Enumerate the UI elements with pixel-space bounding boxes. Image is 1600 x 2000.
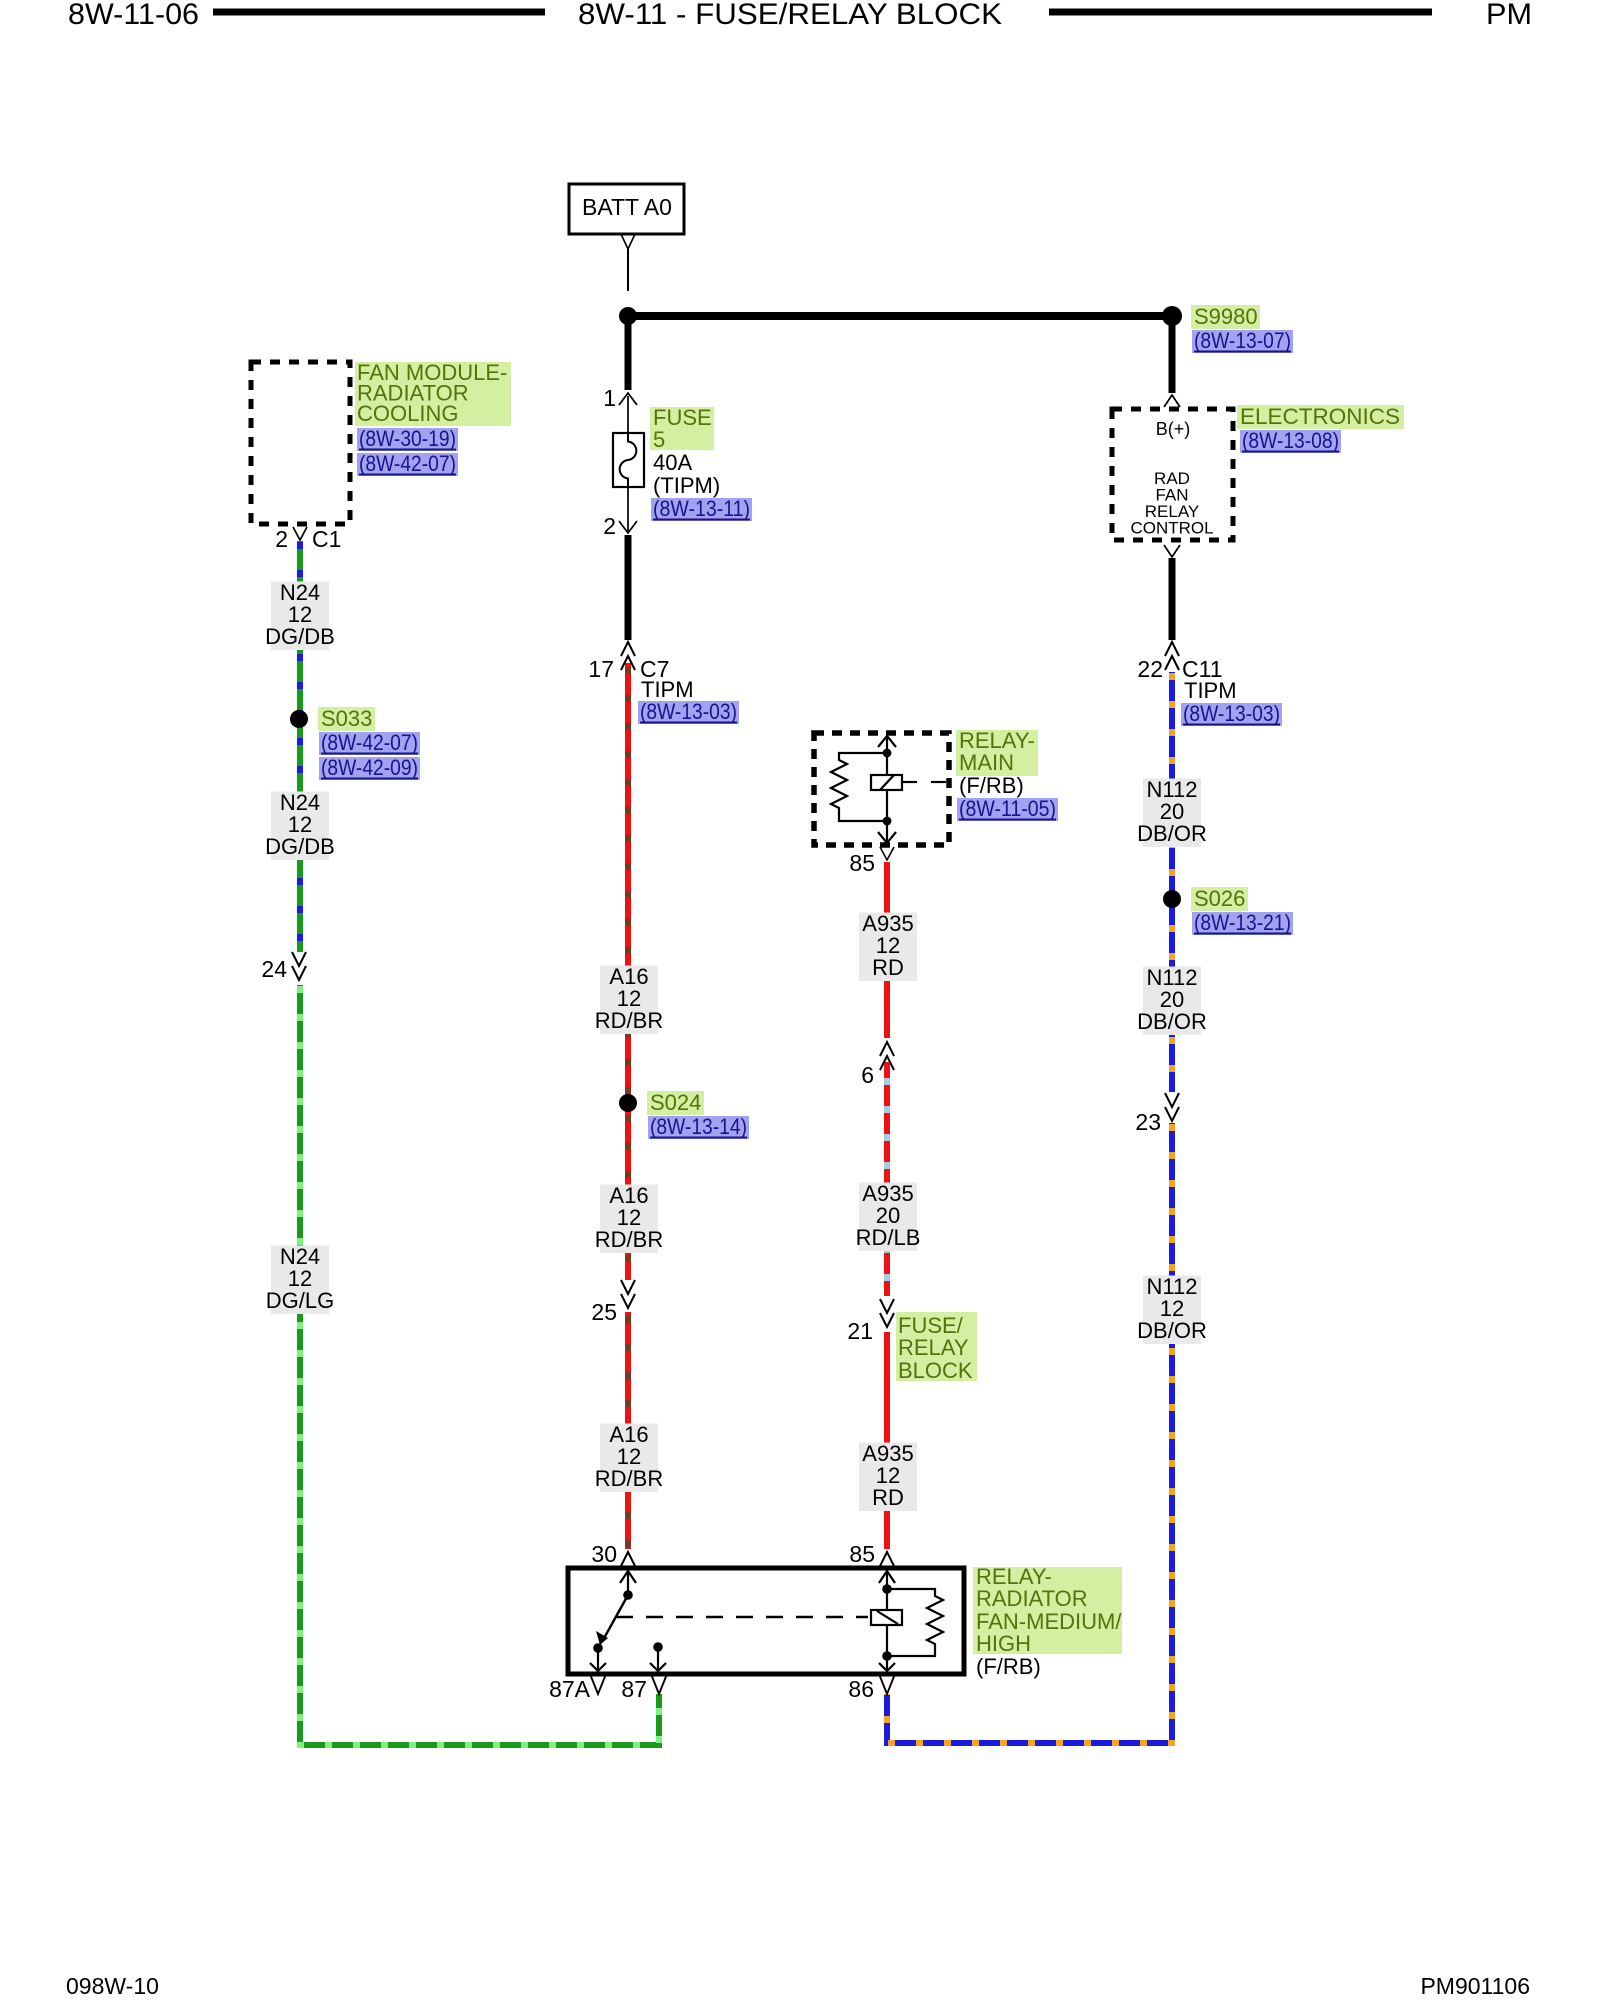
svg-text:RD/BR: RD/BR — [595, 1466, 663, 1491]
svg-text:DB/OR: DB/OR — [1137, 1009, 1207, 1034]
svg-text:S9980: S9980 — [1194, 304, 1258, 329]
svg-text:S024: S024 — [650, 1090, 701, 1115]
svg-text:(TIPM): (TIPM) — [653, 473, 720, 498]
svg-text:DG/DB: DG/DB — [265, 624, 335, 649]
svg-text:(8W-13-08): (8W-13-08) — [1242, 428, 1339, 453]
svg-text:22: 22 — [1137, 656, 1163, 682]
svg-text:CONTROL: CONTROL — [1130, 519, 1213, 538]
svg-text:(8W-13-21): (8W-13-21) — [1194, 910, 1291, 935]
svg-text:(F/RB): (F/RB) — [959, 773, 1024, 798]
svg-text:86: 86 — [848, 1676, 874, 1702]
svg-text:25: 25 — [591, 1299, 617, 1325]
svg-text:1: 1 — [603, 385, 616, 411]
svg-text:87: 87 — [621, 1676, 647, 1702]
svg-text:DG/DB: DG/DB — [265, 834, 335, 859]
svg-text:C1: C1 — [312, 526, 341, 552]
svg-text:(8W-13-07): (8W-13-07) — [1194, 328, 1291, 353]
svg-text:TIPM: TIPM — [1184, 678, 1237, 703]
svg-text:87A: 87A — [549, 1676, 591, 1702]
svg-text:(8W-13-14): (8W-13-14) — [650, 1114, 747, 1139]
svg-text:HIGH: HIGH — [976, 1631, 1031, 1656]
svg-text:DG/LG: DG/LG — [266, 1288, 334, 1313]
svg-text:(8W-11-05): (8W-11-05) — [959, 796, 1056, 821]
svg-text:30: 30 — [591, 1541, 617, 1567]
svg-text:2: 2 — [275, 526, 288, 552]
svg-text:5: 5 — [653, 427, 665, 452]
svg-text:(8W-42-07): (8W-42-07) — [359, 451, 456, 476]
svg-text:(8W-13-11): (8W-13-11) — [653, 496, 750, 521]
svg-text:DB/OR: DB/OR — [1137, 1318, 1207, 1343]
svg-text:8W-11-06: 8W-11-06 — [68, 0, 199, 31]
svg-text:PM901106: PM901106 — [1420, 1973, 1530, 1999]
svg-text:21: 21 — [847, 1318, 873, 1344]
svg-text:S033: S033 — [321, 706, 372, 731]
svg-text:85: 85 — [849, 1541, 875, 1567]
svg-text:RD: RD — [872, 955, 904, 980]
svg-text:RD/BR: RD/BR — [595, 1227, 663, 1252]
svg-text:MAIN: MAIN — [959, 750, 1014, 775]
svg-text:BATT A0: BATT A0 — [582, 194, 672, 220]
svg-text:RADIATOR: RADIATOR — [976, 1586, 1088, 1611]
svg-text:(8W-42-09): (8W-42-09) — [321, 755, 418, 780]
svg-text:85: 85 — [849, 850, 875, 876]
svg-text:40A: 40A — [653, 450, 692, 475]
svg-text:098W-10: 098W-10 — [66, 1973, 159, 1999]
svg-text:RELAY: RELAY — [898, 1335, 969, 1360]
svg-text:DB/OR: DB/OR — [1137, 821, 1207, 846]
svg-text:8W-11 - FUSE/RELAY BLOCK: 8W-11 - FUSE/RELAY BLOCK — [578, 0, 1002, 31]
svg-text:(8W-30-19): (8W-30-19) — [359, 426, 456, 451]
svg-text:(8W-13-03): (8W-13-03) — [1183, 701, 1280, 726]
svg-text:PM: PM — [1486, 0, 1532, 31]
svg-text:(8W-42-07): (8W-42-07) — [321, 730, 418, 755]
svg-text:2: 2 — [603, 513, 616, 539]
svg-text:S026: S026 — [1194, 886, 1245, 911]
svg-text:RD/BR: RD/BR — [595, 1008, 663, 1033]
svg-text:24: 24 — [261, 956, 287, 982]
svg-text:BLOCK: BLOCK — [898, 1358, 973, 1383]
svg-text:B(+): B(+) — [1156, 419, 1191, 439]
svg-text:COOLING: COOLING — [357, 401, 458, 426]
svg-text:(F/RB): (F/RB) — [976, 1654, 1041, 1679]
svg-text:6: 6 — [861, 1062, 874, 1088]
svg-text:ELECTRONICS: ELECTRONICS — [1240, 404, 1400, 429]
svg-text:23: 23 — [1135, 1109, 1161, 1135]
svg-text:(8W-13-03): (8W-13-03) — [640, 699, 737, 724]
svg-text:RD: RD — [872, 1485, 904, 1510]
svg-text:17: 17 — [588, 656, 614, 682]
svg-text:RD/LB: RD/LB — [856, 1225, 921, 1250]
